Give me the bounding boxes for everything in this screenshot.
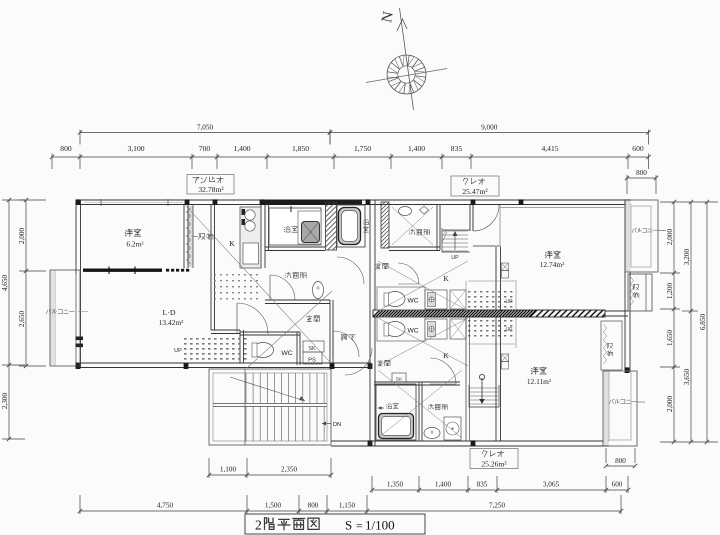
left wall window blocks — [76, 337, 84, 348]
balcony bottom-right — [603, 371, 637, 446]
kitchen dotted right-bottom — [468, 320, 513, 337]
LD dotted floor — [174, 338, 246, 360]
svg-text:PS: PS — [308, 358, 316, 364]
svg-text:1,850: 1,850 — [292, 144, 309, 153]
dim row bottom-3 — [78, 495, 623, 514]
entry door arc left unit — [333, 331, 359, 357]
wall right upper — [625, 200, 630, 372]
entry door arc right-top — [473, 205, 499, 231]
wall K/bath — [261, 205, 265, 268]
shoe box right-bottom — [392, 373, 406, 383]
svg-text:12.11m²: 12.11m² — [527, 377, 552, 386]
svg-text:1,350: 1,350 — [387, 481, 404, 489]
svg-text:700: 700 — [199, 144, 211, 153]
washroom door arc left — [270, 275, 295, 300]
svg-text:32.78m²: 32.78m² — [198, 185, 224, 194]
balcony top-right label — [632, 228, 666, 232]
svg-text:4,650: 4,650 — [1, 275, 9, 292]
svg-text:2,000: 2,000 — [666, 229, 674, 246]
WC left label — [281, 350, 292, 357]
dim 800 top-right — [625, 169, 658, 194]
dim sub-row top — [50, 144, 651, 169]
svg-text:4,750: 4,750 — [157, 502, 174, 510]
bath right-top — [337, 205, 365, 247]
dim chain left outer — [1, 198, 25, 441]
svg-text:3,100: 3,100 — [127, 144, 144, 153]
inner door arc right-bottom — [430, 358, 456, 384]
room LD label — [159, 308, 184, 327]
room 12.74 label — [540, 251, 565, 269]
washroom right-top label — [409, 229, 429, 235]
svg-text:UP: UP — [506, 327, 514, 333]
svg-text:2,000: 2,000 — [18, 228, 26, 245]
closet right-bottom — [601, 321, 622, 370]
svg-text:DN: DN — [333, 422, 341, 428]
stair right-bottom — [469, 374, 499, 407]
balcony top-right — [625, 200, 658, 272]
bath left label — [284, 226, 298, 232]
svg-text:UP: UP — [451, 255, 459, 261]
washroom right-top walls — [389, 205, 440, 251]
wall bedroom6/closet — [184, 205, 188, 268]
dim 800 bottom-right — [604, 448, 637, 468]
window bedroom top — [500, 207, 624, 209]
wall bottom main — [331, 441, 609, 446]
svg-text:L·D: L·D — [163, 308, 176, 317]
svg-text:1/100: 1/100 — [365, 518, 395, 533]
washroom right-top diagonals — [392, 207, 433, 245]
svg-text:600: 600 — [632, 144, 644, 153]
svg-text:2,300: 2,300 — [1, 393, 9, 410]
corridor door arc right-bottom — [345, 348, 372, 375]
kitchen right-top — [425, 290, 466, 309]
balcony bottom-right label — [610, 399, 645, 404]
LD diagonal brace 2 — [247, 291, 332, 368]
svg-text:835: 835 — [451, 144, 463, 153]
label box unit A — [187, 175, 234, 195]
title box — [245, 514, 425, 534]
svg-text:1,500: 1,500 — [265, 502, 282, 510]
K label left — [229, 239, 235, 248]
svg-text:12.74m²: 12.74m² — [540, 260, 565, 269]
K label right-bottom — [443, 351, 449, 360]
wall bedroom12.11 west — [466, 317, 516, 441]
svg-text:800: 800 — [60, 144, 72, 153]
shaft hatch right-top — [381, 194, 389, 254]
svg-text:1,650: 1,650 — [666, 330, 674, 347]
svg-text:800: 800 — [308, 502, 319, 510]
svg-text:25.47m²: 25.47m² — [462, 187, 488, 196]
svg-text:1,150: 1,150 — [339, 502, 356, 510]
dim chains right — [660, 200, 718, 444]
bath right-bottom — [376, 384, 416, 440]
kitchen right-bottom — [425, 319, 466, 339]
svg-text:7,250: 7,250 — [489, 502, 506, 510]
svg-text:K: K — [443, 274, 449, 283]
entry walls right-top — [443, 205, 473, 231]
wall bedroom6 south (window band) — [83, 267, 191, 275]
washroom left walls — [265, 300, 330, 304]
closet bump right — [628, 274, 652, 311]
window top wall left — [85, 199, 183, 206]
svg-text:25.26m²: 25.26m² — [481, 460, 507, 469]
corner columns — [76, 199, 630, 446]
toilet right-top fixtures — [399, 206, 429, 216]
PS boxes right-bottom — [502, 354, 509, 369]
wall bedroom12.74 interior — [465, 281, 467, 311]
closet bump label — [633, 284, 639, 298]
closet strip fill — [189, 205, 194, 268]
bath right-bottom walls — [374, 382, 460, 441]
svg-text:3,650: 3,650 — [683, 369, 691, 386]
svg-text:2,350: 2,350 — [281, 466, 298, 474]
LD diagonal brace 1 — [186, 206, 330, 362]
washroom left label — [285, 272, 306, 278]
washbasin left — [313, 282, 324, 299]
corridor stair DN — [322, 422, 341, 429]
washroom right-bottom — [424, 404, 461, 440]
room bedroom6 label — [125, 229, 144, 249]
room 12.11 label — [527, 367, 552, 386]
external stair — [209, 369, 331, 445]
bath left unit — [269, 206, 321, 245]
svg-text:1,200: 1,200 — [666, 283, 674, 300]
label box unit B top — [451, 176, 499, 196]
wall top — [76, 200, 631, 205]
svg-text:6.2m²: 6.2m² — [126, 240, 144, 249]
unit right-top diagonals — [378, 261, 468, 311]
north arrow — [366, 8, 447, 110]
dim row bottom-1 — [207, 458, 333, 478]
svg-text:UP: UP — [174, 348, 182, 354]
svg-text:13.42m²: 13.42m² — [159, 318, 184, 327]
PS box left — [303, 341, 324, 364]
svg-text:1,400: 1,400 — [408, 144, 425, 153]
svg-text:800: 800 — [615, 457, 626, 465]
stair right-top — [442, 228, 470, 261]
bath left walls — [265, 205, 325, 251]
svg-text:S: S — [345, 518, 352, 533]
genkan right-bottom label — [377, 360, 390, 366]
hall walls right-top — [468, 205, 516, 311]
wall corridor east — [370, 200, 375, 446]
wall bottom LD — [76, 363, 371, 368]
dim 9,000 top — [328, 124, 651, 145]
svg-text:1,100: 1,100 — [220, 466, 237, 474]
label box unit C bottom — [470, 449, 518, 469]
svg-text:7,050: 7,050 — [197, 124, 214, 132]
svg-text:1,400: 1,400 — [435, 481, 452, 489]
unit right-bottom diagonals — [378, 318, 468, 366]
wall closet/K — [211, 205, 215, 268]
kitchen counter left — [240, 207, 261, 268]
svg-text:WC: WC — [281, 350, 292, 357]
party band continuation — [605, 311, 628, 316]
svg-text:6,850: 6,850 — [699, 314, 707, 331]
genkan right-top label — [375, 263, 388, 269]
dim chain left inner — [18, 198, 46, 368]
svg-text:3,200: 3,200 — [683, 249, 691, 266]
svg-text:WC: WC — [408, 328, 419, 335]
svg-text:2,000: 2,000 — [666, 396, 674, 413]
toilet left — [252, 343, 274, 358]
svg-text:2,650: 2,650 — [18, 311, 26, 328]
kitchen dotted right-top — [468, 291, 513, 308]
inner door arc right-top — [398, 263, 419, 284]
room right-bottom diagonals — [378, 370, 462, 438]
svg-text:600: 600 — [612, 481, 623, 489]
corridor door arc right-top — [337, 257, 364, 284]
svg-text:4,415: 4,415 — [541, 144, 558, 153]
svg-text:9,000: 9,000 — [481, 124, 498, 132]
svg-text:1,400: 1,400 — [233, 144, 250, 153]
closet accordion — [187, 208, 191, 264]
hatched party wall band — [373, 310, 609, 317]
balcony left — [50, 270, 80, 366]
svg-text:2: 2 — [255, 518, 262, 533]
wall black band top (bath windows) — [262, 200, 362, 206]
svg-text:SK: SK — [308, 346, 316, 352]
svg-text:UP: UP — [506, 299, 514, 305]
K label right-top — [443, 274, 449, 283]
balcony left label — [47, 309, 88, 314]
svg-text:835: 835 — [477, 481, 488, 489]
wall left — [76, 200, 81, 368]
genkan left label — [306, 316, 319, 322]
WC right-bottom — [377, 317, 425, 341]
dim row bottom-2 — [370, 476, 630, 493]
PS boxes right-top — [502, 263, 509, 278]
wall hall/LD — [211, 268, 240, 334]
WC left walls — [240, 330, 300, 365]
wall corridor west — [330, 300, 333, 363]
svg-text:800: 800 — [636, 169, 647, 177]
corridor label — [341, 335, 355, 341]
bath right-top label — [363, 219, 369, 232]
svg-text:=: = — [356, 519, 363, 533]
shaft hatch between baths — [326, 191, 337, 257]
WC right-top — [377, 287, 425, 310]
closet label left — [193, 233, 213, 239]
dim 7,050 top — [78, 124, 332, 145]
svg-text:WC: WC — [408, 298, 419, 305]
svg-text:1,750: 1,750 — [354, 144, 371, 153]
hall dotted — [214, 274, 258, 299]
svg-text:K: K — [229, 239, 235, 248]
LD door arc — [237, 303, 268, 334]
svg-text:3,065: 3,065 — [543, 481, 560, 489]
